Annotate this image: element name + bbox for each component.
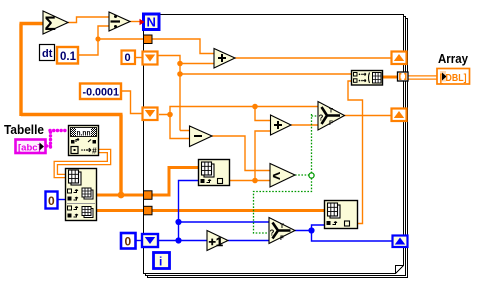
svg-text:Σ: Σ [45,14,56,35]
svg-text:#: # [92,146,97,156]
svg-text:n.nn: n.nn [77,128,91,137]
svg-text:Tabelle: Tabelle [4,122,44,137]
svg-text:DBL]: DBL] [446,73,467,84]
svg-text:?: ? [270,229,275,238]
svg-text:T: T [329,108,333,115]
svg-text:0: 0 [125,235,132,249]
svg-text:0: 0 [48,194,55,208]
svg-text:F: F [280,235,284,242]
svg-text:?: ? [319,114,324,123]
svg-text:N: N [147,15,156,30]
svg-text:Array: Array [438,51,469,66]
svg-text:[abc]: [abc] [18,143,41,154]
svg-text:+1: +1 [209,237,224,249]
svg-text:i: i [159,255,162,269]
svg-text:T: T [280,223,284,230]
svg-text:dt: dt [42,48,53,60]
svg-text:0: 0 [125,52,131,64]
svg-text:-0.0001: -0.0001 [83,87,120,99]
svg-text:<: < [273,169,281,184]
svg-text:0.1: 0.1 [60,51,77,63]
svg-text:F: F [329,120,333,127]
